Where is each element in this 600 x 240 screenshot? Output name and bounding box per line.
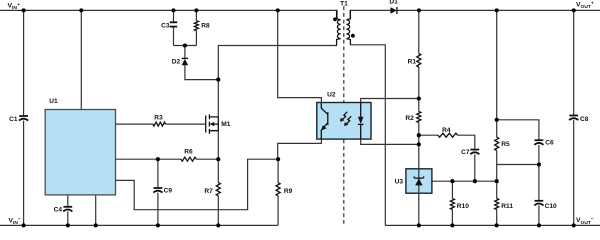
transformer T1 secondary winding [346,10,350,44]
label U2 [327,92,336,99]
label M1 [221,121,230,128]
capacitor C10 [534,201,543,206]
resistor R6 [181,157,196,161]
node V_IN- label [9,217,21,226]
label R6 [184,149,193,156]
optocoupler U2 box [317,103,371,140]
label T1 [340,1,348,8]
capacitor C4 [63,207,72,212]
svg-text:VIN−: VIN− [9,217,21,226]
node V_IN+ label [8,3,20,12]
label C9 [164,188,173,195]
svg-text:C1: C1 [9,116,18,123]
wire: R1/R2 column from V_OUT rail to U3 [418,10,420,168]
resistor R10 [450,199,454,210]
svg-text:C4: C4 [54,207,63,214]
svg-text:C9: C9 [164,188,173,195]
optocoupler U2 light arrows [340,112,351,127]
transformer T1 primary phase dot [333,17,337,21]
wire: secondary bottom to right return rail [350,45,385,226]
wire: C9 branch [157,159,159,225]
node V_OUT- label [576,217,594,226]
svg-text:T1: T1 [340,1,348,8]
transformer T1 secondary phase dot [351,34,355,38]
svg-text:VOUT+: VOUT+ [576,1,594,10]
shunt regulator U3 box [406,169,432,193]
IC U1 (controller box) [45,110,115,195]
label U1 [49,98,58,105]
optocoupler U2 LED [358,103,364,140]
label R7 [204,188,213,195]
wire: R4 compensation row [419,135,475,149]
label R5 [501,141,510,148]
label R1 [408,59,417,66]
label C3 [161,23,170,30]
wire: U2 LED anode pin to R1/R2 node [361,99,419,103]
capacitor C3 [170,22,177,26]
svg-text:U2: U2 [327,92,336,99]
svg-text:R9: R9 [284,188,293,195]
svg-text:U1: U1 [49,98,58,105]
wire: C3/R8 join to D2 [174,46,197,59]
resistor R4 [438,133,458,137]
diode D2 [182,58,189,65]
wire: U1 VIN pin from rail [80,10,82,109]
label C8 [580,116,589,123]
label R8 [201,23,210,30]
wire: U1 FB pin routed under to R9 node [116,159,279,210]
wire: R9 branch to ground rail [277,159,279,225]
svg-text:R5: R5 [501,141,510,148]
optocoupler U2 phototransistor [321,103,328,140]
wire: U2 emitter pin to R9 node [278,139,322,159]
wire: C3 branch [173,10,175,45]
wire: M1 source down to sense node [217,130,219,182]
label D2 [172,58,181,65]
shunt regulator U3 symbol [414,169,425,193]
resistor R7 [216,183,220,196]
wire: left ground rail [0,224,278,226]
wire: C1 branch [23,10,25,225]
label C6 [545,139,554,146]
svg-text:R4: R4 [442,127,451,134]
wire: U2 LED cathode pin to node below R2 [361,139,419,144]
label R4 [442,127,451,134]
label U3 [395,178,404,185]
wire: C7 bottom to ref row [474,154,476,181]
svg-text:C10: C10 [545,203,557,210]
label R2 [405,115,414,122]
junction dots mid nodes [156,43,541,183]
wire: U3 ref row [432,180,497,182]
wire: R10 branch [451,181,453,225]
wire: U1 gate drive row to R3 and M1 gate [116,123,206,125]
resistor R5 [495,137,499,150]
capacitor C8 [569,116,578,121]
wire: C6 top link [497,120,539,140]
svg-text:R8: R8 [201,23,210,30]
label D1 [389,0,398,6]
svg-text:R3: R3 [154,114,163,121]
svg-text:D1: D1 [389,0,398,6]
svg-text:C8: C8 [580,116,589,123]
node V_OUT+ label [576,1,594,10]
wire: R7 to ground rail [217,196,219,226]
svg-text:C6: C6 [545,139,554,146]
svg-text:R6: R6 [184,149,193,156]
junction dots top rail [22,8,576,12]
diode D1 [390,7,397,14]
svg-text:U3: U3 [395,178,404,185]
label C10 [545,203,557,210]
capacitor C9 [153,188,162,193]
label R3 [154,114,163,121]
transistor M1 (power MOSFET) [206,114,219,133]
label C1 [9,116,18,123]
wire: primary bottom to M1 drain [218,46,336,117]
wire: R5/R11 divider column [496,10,498,225]
label R10 [457,203,469,210]
svg-text:R2: R2 [405,115,414,122]
wire: C8 branch [573,10,575,225]
resistor R2 [417,112,421,123]
svg-text:R7: R7 [204,188,213,195]
resistor R1 [417,54,421,68]
wire: C6 bottom to divider mid [497,145,539,165]
wire: top V_IN+ rail [0,10,337,19]
svg-text:R1: R1 [408,59,417,66]
svg-text:C7: C7 [461,149,470,156]
wire: right return rail [385,224,600,226]
label C7 [461,149,470,156]
capacitor C6 [534,140,543,145]
wire: R8 branch [195,10,197,45]
capacitor C1 [19,116,28,121]
wire: rail to U2 collector pin [278,10,322,102]
svg-text:D2: D2 [172,58,181,65]
label R11 [501,203,513,210]
svg-text:VOUT−: VOUT− [576,217,594,226]
label C4 [54,207,63,214]
isolation barrier dashed line [343,6,345,225]
svg-text:M1: M1 [221,121,230,128]
wire: U1 CS row with R6 [116,158,219,160]
resistor R8 [194,21,198,31]
capacitor C7 [470,150,479,155]
svg-text:R10: R10 [457,203,469,210]
resistor R11 [495,199,499,210]
wire: U3 anode to return rail [418,193,420,225]
junction dots bottom rails [22,223,576,227]
svg-text:R11: R11 [501,203,513,210]
label R9 [284,188,293,195]
wire: U1 GND pin to rail [95,195,97,226]
transformer T1 primary winding [337,10,341,45]
resistor R9 [276,183,280,196]
wire: C4 branch under U1 [67,195,69,226]
wire: top V_OUT+ rail (secondary, through D1) [350,10,600,19]
resistor R3 [153,122,166,126]
wire: D2 anode to drain node [185,65,218,79]
wire: C10 branch [538,165,540,226]
svg-text:C3: C3 [161,23,170,30]
